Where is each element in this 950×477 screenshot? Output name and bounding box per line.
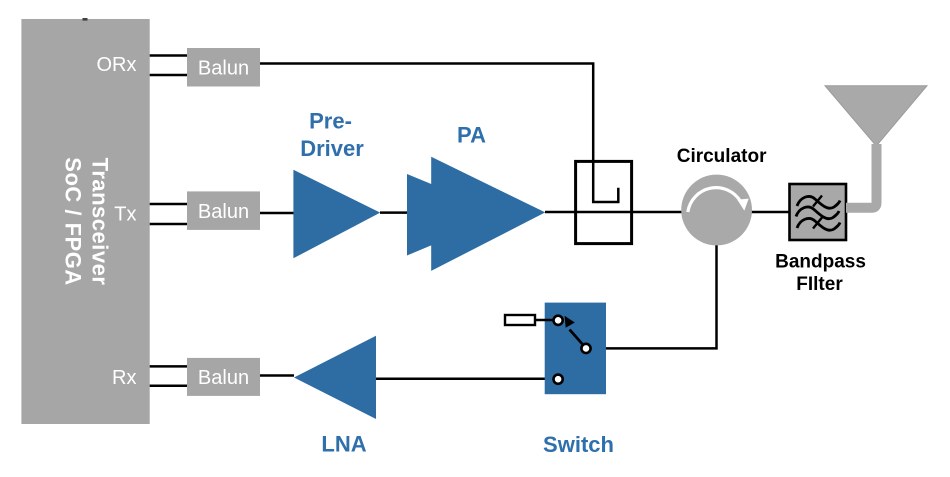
svg-text:Balun: Balun xyxy=(198,57,249,79)
LNA amplifier xyxy=(294,336,376,419)
transceiver SoC/FPGA block xyxy=(21,18,149,424)
svg-text:Balun: Balun xyxy=(198,201,249,223)
switch pole P1 (to coupler/ORx tap) xyxy=(554,316,563,325)
svg-text:Rx: Rx xyxy=(112,367,136,389)
antenna xyxy=(825,86,927,208)
wire PA to circulator through coupler xyxy=(545,211,682,214)
switch pole P3 (to LNA) xyxy=(554,375,563,384)
PA amplifier (back triangle) xyxy=(407,174,505,256)
svg-text:Driver: Driver xyxy=(300,136,364,161)
directional coupler xyxy=(576,161,632,243)
pre-driver amplifier xyxy=(293,170,380,258)
svg-text:Tx: Tx xyxy=(114,204,136,226)
svg-text:SoC / FPGA: SoC / FPGA xyxy=(60,157,85,285)
wire Rx differential pair xyxy=(150,366,187,385)
label Bandpass FIlter xyxy=(775,251,866,295)
svg-text:Transceiver: Transceiver xyxy=(87,158,112,286)
wire circulator to bandpass filter xyxy=(751,211,790,214)
svg-text:LNA: LNA xyxy=(321,432,366,457)
label Pre-Driver xyxy=(300,109,364,162)
svg-text:Circulator: Circulator xyxy=(677,146,767,167)
svg-text:Pre-: Pre- xyxy=(309,109,352,134)
svg-text:FIlter: FIlter xyxy=(796,274,843,295)
wire ORx differential pair xyxy=(150,56,187,76)
svg-text:Switch: Switch xyxy=(543,432,614,457)
circulator xyxy=(681,175,752,246)
wire ORx balun to coupler (feedback tap with hook) xyxy=(260,64,618,203)
svg-text:Balun: Balun xyxy=(198,367,249,389)
wire LNA to Rx balun xyxy=(260,374,294,377)
wire circulator to switch xyxy=(591,245,717,348)
wire Tx balun to pre-driver xyxy=(260,212,295,215)
svg-text:ORx: ORx xyxy=(97,54,137,76)
balun B3 (Rx path) xyxy=(187,358,260,396)
PA amplifier (front triangle) xyxy=(431,157,545,271)
switch block xyxy=(545,303,606,395)
bandpass filter xyxy=(790,184,847,240)
balun B1 (ORx path) xyxy=(187,48,260,87)
svg-text:Bandpass: Bandpass xyxy=(775,251,866,272)
switch pole P2 (to circulator) xyxy=(581,344,590,353)
switch throw arm with arrowhead xyxy=(565,316,583,344)
svg-text:PA: PA xyxy=(457,123,486,148)
switch control stub (white box) xyxy=(505,315,553,325)
balun B2 (Tx path) xyxy=(187,191,260,230)
wire Tx differential pair xyxy=(150,204,187,224)
wire switch to LNA xyxy=(376,378,554,381)
wire pre-driver to PA xyxy=(380,211,432,214)
